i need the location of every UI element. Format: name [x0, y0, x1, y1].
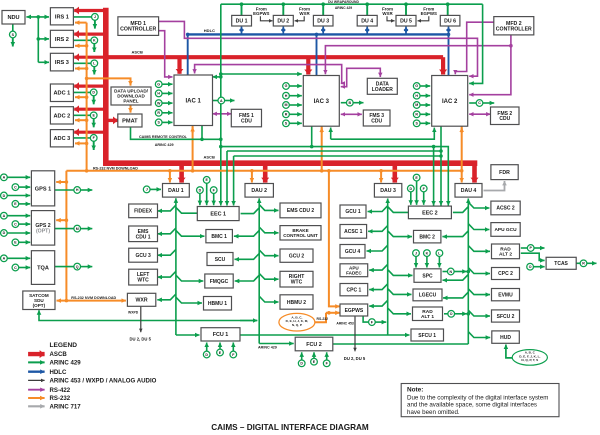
wire L down arrow: [93, 67, 95, 75]
wire RS-232 to GPS 2: [56, 219, 66, 221]
wire ARINC429 crosstalk H3 line: [234, 154, 443, 158]
box FMQGC: [205, 274, 233, 288]
wire trunk3 to SPC left: [388, 270, 413, 276]
connector F into EEC 2: [420, 185, 427, 192]
box BMC 1: [206, 230, 233, 243]
svg-text:NDU: NDU: [7, 15, 19, 21]
wire ASCB drop to IAC 1: [177, 57, 181, 74]
wire RAD ALT 2 to TCAS: [521, 253, 545, 260]
wire R arrow: [587, 262, 597, 264]
box FDR: [491, 165, 518, 180]
box LEFT WTC: [129, 269, 158, 285]
legend entry ARINC 429: [28, 360, 81, 367]
wire ellipse to HUD: [506, 345, 512, 358]
wire FCU1-SFCU1 line: [240, 334, 410, 336]
box HBMU 2: [280, 295, 313, 309]
box CPC 1: [340, 284, 368, 296]
svg-text:ASCB: ASCB: [204, 155, 215, 160]
wire ASCB left vertical bus: [103, 8, 109, 163]
svg-text:Note:: Note:: [407, 387, 423, 394]
svg-text:CDU: CDU: [499, 116, 510, 122]
wire CAIMS REMOTE CONTROL: [131, 127, 221, 141]
wire RS-232 drop to DAU 1: [169, 171, 171, 183]
wire RS-422 IAC2-FMS2 CDU: [469, 113, 490, 115]
wire drop to DU 3: [322, 4, 324, 15]
wire RS-232 horizontal: [66, 169, 463, 173]
svg-text:FCU 2: FCU 2: [306, 342, 322, 348]
wire IRS2 to K: [73, 39, 91, 41]
svg-text:TQA: TQA: [37, 266, 49, 272]
wire RS-422 IAC1-FMS1 CDU: [213, 113, 232, 115]
box PMAT: [118, 114, 142, 127]
svg-text:SPC: SPC: [422, 273, 433, 279]
connector F from EGPWS: [369, 319, 376, 326]
wire trunk3 to GCU 1: [368, 206, 388, 212]
wire C arrow: [483, 102, 495, 104]
box DU 4: [357, 15, 377, 26]
wire RS-422 MFD1 to IAC1: [159, 31, 173, 77]
svg-text:LGECU: LGECU: [419, 293, 437, 299]
svg-text:DU 6: DU 6: [444, 19, 456, 25]
svg-text:A: A: [3, 214, 6, 218]
box GCU 1: [340, 205, 366, 218]
box FCU 2: [295, 337, 333, 351]
svg-text:SCU: SCU: [215, 257, 226, 263]
wire trunk1 to LEFT WTC: [158, 271, 176, 277]
wire F arrow to trunk3: [375, 321, 386, 323]
svg-text:EMS CDU 2: EMS CDU 2: [287, 208, 314, 214]
wire trunk2 to RIGHT WTC: [259, 273, 278, 279]
svg-text:ACSC 2: ACSC 2: [496, 206, 515, 212]
wire F down arrow: [93, 141, 95, 150]
wire IRS1 to J: [73, 16, 91, 18]
wire trunk3 to BMC 2 left: [388, 231, 412, 237]
svg-text:G: G: [157, 83, 160, 87]
box DATA LOADER: [367, 78, 397, 94]
box TQA: [31, 251, 54, 285]
svg-text:DU 2, DU 5: DU 2, DU 5: [344, 356, 366, 361]
connector A into TQA: [1, 255, 8, 262]
box DATA UPLOAD DOWNLOAD PANEL: [111, 87, 151, 105]
svg-text:DU 2: DU 2: [277, 19, 289, 25]
wire trunk4 to LGECU right: [443, 292, 468, 298]
wire B arrow: [353, 102, 364, 104]
wire M into IAC 3: [289, 104, 302, 106]
connector M from GPS 2: [74, 225, 81, 232]
wire HDLC horizontal: [188, 33, 449, 35]
svg-text:ARINC 429: ARINC 429: [258, 346, 277, 350]
wire ASCB to ADC 3: [74, 131, 106, 134]
svg-text:ADC 3: ADC 3: [54, 136, 71, 142]
wire J into SPC: [415, 256, 417, 267]
wire TQA to Q: [55, 266, 74, 268]
wire F into EEC1: [213, 193, 215, 205]
wire D into GPS 1: [7, 195, 30, 197]
wire HDLC to IAC 3: [315, 33, 319, 76]
wire ASCB to PMAT: [106, 119, 118, 122]
wire trunk3 to LGECU left: [388, 289, 412, 295]
wire ARINC429 link to IAC2 bottom: [331, 128, 435, 140]
svg-text:DAU 1: DAU 1: [168, 188, 184, 194]
wire RS-422 IAC3-FMS3 CDU: [341, 113, 362, 115]
box DU 5: [396, 15, 416, 26]
connector S into IAC 3: [283, 120, 290, 127]
connector N from SPC: [447, 268, 454, 275]
wire H into IAC 3: [289, 95, 302, 97]
box DAU 2: [245, 184, 273, 198]
connector A into GPS 2: [1, 212, 8, 219]
wire IAC3 bottom drop: [311, 127, 313, 147]
box ACSC 1: [340, 225, 367, 239]
wire RS-422 IAC1-IAC3 link: [195, 65, 342, 84]
svg-text:CDU: CDU: [241, 119, 252, 125]
wire RS-232 IAC3 arrow: [321, 128, 323, 134]
connector ellipse to EGPWS: [279, 313, 315, 331]
box RIGHT WTC: [280, 271, 313, 287]
wire trunk DAU4 up: [467, 199, 471, 345]
svg-text:FADEC: FADEC: [346, 270, 362, 275]
wire trunk2 to BRAKE CONTROL UNIT: [259, 227, 278, 233]
connector R into IAC 3: [283, 111, 290, 118]
wire R into IAC 2: [420, 113, 430, 115]
box IAC 2: [432, 76, 468, 127]
wire trunk2 to GCU 2: [259, 250, 278, 256]
svg-text:M: M: [415, 103, 418, 107]
wire RS-232 EGPWS second arrow: [326, 311, 340, 315]
connector K from IRS 2: [91, 37, 98, 44]
wire S down arrow: [12, 38, 14, 47]
connector H from GPS 1: [74, 187, 81, 194]
box DU 1: [232, 15, 252, 26]
wire RS-232 IAC1 link: [192, 126, 194, 171]
connector S below NDU: [9, 31, 16, 38]
box DAU 4: [455, 184, 482, 198]
wire RS-422 MFD1 to IAC2: [159, 21, 478, 76]
box DU 2: [273, 15, 293, 26]
wire HDLC to DU 4: [366, 27, 368, 34]
connector O into TCAS: [527, 263, 534, 270]
box MFD 1 CONTROLLER: [118, 17, 159, 36]
connector E into GPS 1: [12, 201, 19, 208]
box GPS 2: [31, 211, 54, 246]
wire From WXR into DU 5: [387, 16, 395, 21]
wire trunk2 to FMQGC right: [235, 275, 260, 281]
wire L into SPC: [438, 256, 440, 267]
svg-text:FMQGC: FMQGC: [210, 279, 229, 285]
svg-text:IRS 2: IRS 2: [55, 37, 69, 43]
wire A arrow: [225, 100, 235, 102]
wire RS-232 IAC2 link: [461, 127, 463, 171]
wire trunk1 to HBMU 1 left: [176, 297, 202, 303]
wire DAU1 J arrow: [150, 188, 161, 190]
box BRAKE CONTROL UNIT: [280, 226, 321, 240]
wire SATCOM line right arrow: [240, 320, 257, 322]
svg-text:G: G: [415, 84, 418, 88]
svg-text:BMC 1: BMC 1: [211, 234, 227, 240]
wire drop to DU 6: [447, 4, 449, 15]
connector L into SPC: [436, 250, 443, 257]
wire R into IAC 3: [289, 113, 302, 115]
wire HDLC to IAC 2: [447, 33, 451, 76]
svg-text:N, Q, P: N, Q, P: [292, 323, 302, 327]
connector D from ADC 1: [90, 89, 97, 96]
svg-text:CONTROL UNIT: CONTROL UNIT: [283, 233, 318, 238]
svg-text:C: C: [14, 266, 17, 270]
svg-text:IAC 2: IAC 2: [442, 99, 458, 105]
svg-text:GCU 2: GCU 2: [289, 253, 305, 259]
svg-text:ARINC 429: ARINC 429: [155, 143, 174, 147]
wire trunk2 to HBMU 2: [259, 296, 278, 302]
wire RS-232 drop to DAU 4: [461, 171, 463, 183]
wire trunk3 to CPC 1 right: [369, 284, 388, 290]
svg-text:ALT 2: ALT 2: [499, 252, 512, 258]
wire N arrow to trunk4: [454, 271, 467, 273]
connector G into IAC 3: [283, 83, 290, 90]
svg-text:CDU: CDU: [371, 119, 382, 125]
box EGPWS: [340, 304, 368, 316]
svg-text:RAD: RAD: [500, 246, 511, 252]
legend entry ARINC 717: [28, 403, 81, 410]
wire K down arrow: [93, 44, 95, 53]
connector E into EEC 1: [203, 177, 210, 184]
wire E into GPS 2: [19, 241, 31, 243]
svg-text:RS-232 NVM DOWNLOAD: RS-232 NVM DOWNLOAD: [71, 296, 116, 300]
wire F into EEC2: [423, 192, 425, 205]
connector W into IAC 1: [155, 100, 162, 107]
svg-text:CDU 1: CDU 1: [136, 234, 151, 240]
connector J from IRS 1: [92, 14, 99, 21]
wire trunk1 to BMC 1 left: [176, 230, 205, 236]
wire RS-422 MFD2 to IAC2 right: [469, 35, 511, 94]
box SATCOM SDU OPT: [23, 291, 55, 310]
legend entry HDLC: [28, 369, 67, 376]
wire D down arrow: [93, 96, 95, 105]
svg-text:DU 5: DU 5: [400, 19, 412, 25]
connector E into FCU 1: [217, 349, 224, 356]
svg-text:H: H: [157, 92, 160, 96]
box EEC 2: [408, 206, 451, 219]
wire D into EEC1: [199, 193, 201, 205]
svg-text:EEC 2: EEC 2: [422, 210, 438, 216]
connector G into IAC 2: [413, 83, 420, 90]
wire RAD ALT1 to O: [444, 313, 448, 315]
wire RS-232 SATCOM-WXR: [57, 300, 126, 302]
wire ASCB to ADC 1: [74, 84, 106, 87]
svg-text:DU 2, DU 5: DU 2, DU 5: [130, 337, 152, 342]
wire E down arrow: [93, 119, 95, 128]
wire E into FCU1: [219, 343, 221, 350]
wire SPC to N: [443, 271, 448, 273]
wire trunk4 to SPC right: [443, 274, 469, 280]
wire F into FCU1: [232, 343, 234, 352]
connector R from TCAS: [580, 260, 587, 267]
wire W into IAC 1: [162, 102, 173, 104]
svg-text:N: N: [449, 270, 452, 274]
svg-text:D: D: [205, 353, 208, 357]
box GCU 3: [129, 248, 158, 262]
box RAD ALT 1: [413, 307, 443, 321]
box NDU: [2, 11, 25, 25]
wire trunk4 to EVMU: [468, 289, 490, 295]
wire O arrow to trunk4: [454, 313, 466, 315]
box HBMU 1: [204, 297, 232, 311]
box ADC 3: [50, 130, 73, 147]
wire trunk3 to ACSC 1: [368, 226, 388, 232]
svg-text:GCU 4: GCU 4: [345, 249, 361, 255]
box EMS CDU 1: [129, 226, 158, 242]
svg-text:ACSC 1: ACSC 1: [344, 229, 363, 235]
box IRS 2: [50, 30, 73, 47]
wire trunk4 to SFCU 2: [468, 310, 490, 316]
svg-text:O: O: [529, 265, 532, 269]
svg-text:RS-232: RS-232: [317, 317, 329, 321]
wire drop to DU 4: [366, 4, 368, 15]
svg-text:M: M: [76, 227, 79, 231]
wire trunk DAU2 up: [258, 198, 260, 343]
box FMS 2 CDU: [491, 107, 520, 125]
wire trunk3 to EGPWS right: [369, 300, 388, 306]
wire RS-232 GPS vertical: [65, 171, 69, 303]
svg-text:A: A: [3, 257, 6, 261]
svg-text:C: C: [478, 101, 481, 105]
connector C into GPS 1: [12, 184, 19, 191]
box DAU 1: [163, 184, 190, 198]
wire trunk1 to EEC 1: [176, 207, 197, 213]
connector H into IAC 1: [155, 90, 162, 97]
connector E from ADC 2: [90, 112, 97, 119]
box SFCU 1: [411, 329, 444, 341]
wire NDU-IRS1 link: [26, 15, 49, 19]
wire HDLC to DU 2: [282, 27, 284, 34]
wire DU wraparound top line: [221, 2, 483, 6]
connector D into GPS 1: [1, 192, 8, 199]
wire RS-232 to ADC 1: [75, 96, 87, 98]
svg-text:W: W: [157, 101, 161, 105]
wire G into IAC 2: [420, 85, 430, 87]
svg-text:PANEL: PANEL: [123, 99, 138, 104]
box FMS 3 CDU: [363, 110, 390, 126]
connector H into IAC 2: [413, 92, 420, 99]
svg-text:D: D: [92, 91, 95, 95]
svg-text:WXPD: WXPD: [128, 310, 139, 314]
svg-text:K: K: [93, 39, 96, 43]
box SFCU 2: [492, 310, 520, 322]
svg-text:RS-232: RS-232: [50, 395, 71, 402]
note box: [401, 384, 559, 417]
box APU FADEC: [340, 264, 368, 277]
svg-text:SFCU 1: SFCU 1: [418, 333, 436, 339]
svg-text:DU 4: DU 4: [361, 19, 373, 25]
legend entry ARINC 453 / WXPD / ANALOG AUDIO: [28, 378, 157, 385]
wire EGPWS to F: [363, 316, 368, 322]
wire IAC2 to C: [469, 102, 476, 104]
svg-text:ADC 2: ADC 2: [54, 113, 71, 119]
wire NDU to S stub: [12, 24, 14, 31]
connector S into IAC 1: [155, 119, 162, 126]
wire trunk4 to APU GCU: [468, 224, 489, 230]
wire FCU2 output: [333, 343, 469, 345]
svg-text:EGPWS: EGPWS: [253, 11, 269, 16]
wire RS-232 to IRS 1: [75, 22, 87, 24]
wire H arrow: [80, 189, 92, 191]
svg-text:WTC: WTC: [137, 278, 149, 284]
wire trunk2 from EEC 1: [241, 208, 260, 214]
wire trunk1 to FIDEEX: [158, 205, 176, 211]
wire EEC2 feed from H1: [433, 147, 435, 206]
svg-text:ALT 1: ALT 1: [421, 314, 434, 320]
wire drop to DU 1: [241, 4, 243, 15]
connector J into DAU 1: [143, 186, 150, 193]
svg-text:IRS 3: IRS 3: [55, 60, 69, 66]
svg-text:A: A: [3, 176, 6, 180]
wire trunk2 to EMS CDU 2: [259, 205, 278, 211]
wire branch to IRS 3: [38, 61, 49, 63]
svg-text:H: H: [76, 188, 79, 192]
box ACSC 2: [491, 201, 520, 215]
wire SATCOM ARINC429 line: [39, 310, 257, 320]
svg-text:R: R: [582, 262, 585, 266]
box CPC 2: [492, 268, 520, 280]
wire RS-232 IAC3 link: [321, 127, 323, 171]
svg-text:D: D: [3, 231, 6, 235]
svg-text:CONTROLLER: CONTROLLER: [496, 26, 532, 32]
wire RS-232 to IRS 3: [75, 68, 87, 70]
svg-text:ARINC 429: ARINC 429: [50, 360, 82, 367]
box GCU 4: [340, 245, 365, 259]
wire DU wraparound to IAC2 right: [469, 4, 482, 83]
box WXR: [127, 293, 155, 306]
wire IRS3 to L: [73, 62, 91, 64]
box DU 6: [440, 15, 460, 26]
wire E into EEC2: [416, 181, 418, 205]
connector S into IAC 2: [413, 120, 420, 127]
box GCU 2: [280, 249, 313, 262]
connector K into SPC: [424, 250, 431, 257]
wire IAC1 bottom green: [201, 126, 203, 140]
svg-text:R: R: [157, 111, 160, 115]
connector D into EEC 2: [407, 185, 414, 192]
svg-text:C: C: [14, 185, 17, 189]
wire S into IAC 1: [162, 121, 173, 123]
wire trunk DAU3 up: [387, 199, 389, 336]
wire branch to IAC 1 right: [213, 76, 221, 78]
svg-text:D: D: [409, 187, 412, 191]
wire RS-232 drop to DAU 3: [380, 171, 382, 183]
svg-text:ARINC 429: ARINC 429: [335, 6, 352, 10]
box IAC 1: [174, 75, 213, 126]
wire ASCB drop to IAC 3: [306, 57, 310, 74]
svg-text:ARINC 453 / WXPD / ANALOG AUDI: ARINC 453 / WXPD / ANALOG AUDIO: [50, 378, 157, 385]
wire E into EEC1: [206, 183, 208, 205]
svg-text:O: O: [450, 312, 453, 316]
svg-text:PMAT: PMAT: [122, 119, 138, 125]
svg-text:ASCB: ASCB: [50, 351, 68, 358]
wire IAC3 to B: [341, 102, 347, 104]
wire K into SPC: [426, 256, 428, 267]
svg-text:GPS 1: GPS 1: [35, 186, 51, 192]
wire trunk1 to EMS CDU 1: [158, 228, 176, 234]
connector C from IAC 2: [476, 100, 483, 107]
wire RS-422 MFD2 to IAC3: [325, 44, 512, 74]
wire RS-232 to ADC 2: [75, 119, 87, 121]
wire trunk3 to APU FADEC right: [369, 264, 388, 270]
connector F from ADC 3: [90, 135, 97, 142]
wire trunk4 to BMC 2 right: [442, 231, 468, 237]
wire From EGPWS into DU 2: [260, 16, 272, 21]
svg-text:GCU 1: GCU 1: [345, 209, 361, 215]
wire trunk4 to CPC 2: [468, 268, 490, 274]
connector Q from TQA: [74, 263, 81, 270]
